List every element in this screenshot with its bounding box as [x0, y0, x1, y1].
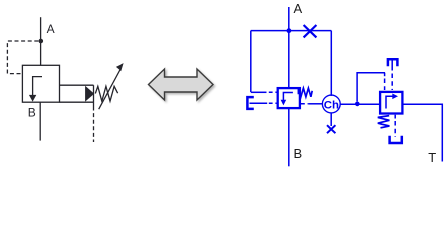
wire top horizontal — [251, 30, 331, 32]
wire valve 1 bottom to B — [288, 108, 290, 166]
pressure valve 1 body — [278, 88, 300, 108]
svg-text:Ch: Ch — [324, 99, 339, 111]
vent pocket bracket top — [388, 59, 398, 66]
solenoid box top line — [60, 84, 94, 86]
valve 2 drain dashed to pocket — [394, 115, 396, 119]
node A junction dot — [39, 39, 44, 44]
svg-text:B: B — [294, 146, 303, 161]
wire left pilot down — [250, 31, 252, 92]
pilot dashed line from node A — [7, 41, 38, 74]
flow path elbow arrow inside valve — [33, 77, 42, 96]
adjustment arrow diagonal — [99, 69, 121, 110]
solenoid box bottom line — [60, 101, 94, 103]
orifice X on top line — [304, 25, 317, 37]
drain pocket bracket bottom — [390, 136, 402, 143]
svg-text:A: A — [294, 1, 303, 16]
pilot dashed down to valve 2 top left port — [384, 73, 386, 77]
pilot wire up and over — [357, 73, 385, 102]
valve body square — [22, 65, 59, 102]
wire port A vertical — [288, 7, 290, 87]
wire gauge to valve 2 — [340, 103, 379, 105]
wire from pocket to valve lower port — [250, 102, 268, 104]
pressure valve 2 body — [380, 92, 402, 114]
pilot line to reducing valve upper port — [251, 91, 267, 93]
valve 2 spring zigzag below — [378, 116, 390, 128]
node junction dot before valve 2 — [355, 102, 360, 107]
valve 2 elbow arrow — [386, 96, 394, 108]
wire valve 1 to gauge: dashed then solid — [301, 103, 308, 105]
svg-text:B: B — [28, 106, 36, 120]
svg-text:T: T — [428, 150, 436, 165]
drain dashed line — [93, 107, 95, 143]
gauge circle Ch — [322, 95, 340, 113]
wire down to gauge circle — [330, 31, 332, 96]
solenoid triangle — [85, 86, 94, 102]
plugged pocket bracket left — [247, 97, 253, 109]
valve 1 elbow arrow — [283, 93, 293, 101]
plug X below gauge — [327, 125, 335, 133]
valve 1 spring zigzag — [298, 88, 312, 97]
node junction dot on A — [287, 28, 292, 33]
svg-text:A: A — [47, 22, 55, 36]
wire port A vertical line — [40, 17, 42, 65]
double-headed arrow — [149, 69, 214, 100]
wire port B vertical line — [39, 102, 41, 140]
wire below gauge — [330, 113, 332, 126]
vent wire from pocket — [391, 61, 393, 71]
wire valve 2 out to T — [402, 104, 442, 161]
spring zigzag — [95, 86, 117, 101]
solenoid box right edge — [93, 85, 95, 106]
